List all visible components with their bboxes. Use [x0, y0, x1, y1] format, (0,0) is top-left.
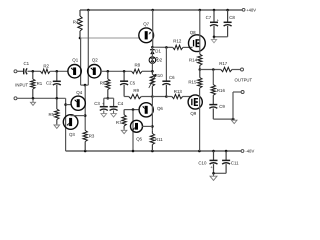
wire gnd run to Q3Q4 column	[65, 98, 67, 151]
svg-text:R13: R13	[174, 89, 183, 94]
wire Q7 collector-emitter	[152, 10, 154, 47]
ground R5	[54, 124, 60, 128]
svg-text:C7: C7	[206, 15, 212, 20]
wire rail to Q2	[87, 10, 89, 85]
svg-text:C9: C9	[219, 104, 225, 109]
node R10 top	[151, 70, 154, 73]
node rail-Q8	[199, 9, 202, 12]
capacitor C6	[162, 47, 175, 96]
wire to C4	[107, 98, 113, 107]
node R10 bottom	[151, 95, 154, 98]
wire Dnode to R12	[152, 46, 172, 48]
wire +48V rail	[80, 9, 243, 11]
ground R7	[121, 129, 127, 134]
node rail-Q7	[151, 9, 154, 12]
svg-text:R3: R3	[89, 133, 95, 138]
wire C5 to R9	[124, 96, 129, 98]
svg-text:R8: R8	[135, 63, 141, 68]
node R6 bottom	[107, 97, 110, 100]
svg-text:+: +	[102, 101, 105, 106]
resistor R6	[100, 71, 110, 98]
node Q5 rail	[132, 150, 135, 153]
node input R1	[32, 70, 35, 73]
capacitor C1	[24, 61, 30, 75]
ground C3	[101, 110, 107, 117]
terminal input gnd	[14, 97, 17, 100]
resistor R7	[116, 110, 126, 129]
svg-text:Q4: Q4	[76, 90, 82, 95]
node rail-Q9	[198, 150, 201, 153]
ground input	[30, 98, 35, 105]
resistor R1	[31, 71, 43, 98]
resistor R16	[211, 70, 225, 105]
node D1 top	[151, 46, 154, 49]
svg-text:-48V: -48V	[245, 149, 254, 154]
transistor Q2	[88, 58, 101, 78]
wire Q7 base run	[80, 37, 139, 39]
svg-text:R4: R4	[73, 20, 79, 25]
wire R8 to Dnode	[142, 70, 152, 72]
terminal output gnd	[241, 91, 244, 94]
svg-text:OUTPUT: OUTPUT	[235, 77, 253, 82]
transistor Q1	[68, 58, 81, 78]
ground output	[231, 118, 237, 123]
svg-text:C8: C8	[229, 15, 235, 20]
wire Q8 drain-source	[199, 10, 201, 54]
wire C8 to C7	[214, 36, 228, 38]
capacitor C11	[222, 151, 239, 173]
capacitor C3	[94, 101, 108, 111]
wire to C3	[104, 98, 107, 107]
svg-text:C11: C11	[231, 160, 239, 165]
node C10 gnd	[212, 172, 215, 175]
resistor R15	[188, 70, 202, 89]
led D2	[149, 57, 163, 64]
wire C1 to node	[28, 70, 41, 72]
node rail-R3	[84, 150, 87, 153]
wire to terminal	[233, 91, 241, 93]
svg-text:+: +	[217, 17, 220, 22]
diode D1	[150, 48, 161, 54]
resistor R13	[172, 89, 183, 99]
transistor Q4	[71, 90, 85, 110]
svg-text:R2: R2	[43, 63, 49, 68]
node input gnd	[32, 97, 35, 100]
terminal output hot	[241, 68, 244, 71]
wire R12 to Q8 gate	[183, 46, 193, 48]
capacitor C8	[224, 10, 236, 37]
ground C7C8	[211, 37, 216, 43]
svg-text:C6: C6	[169, 75, 175, 80]
resistor R9	[129, 88, 142, 99]
svg-text:Q8: Q8	[190, 30, 196, 35]
svg-text:C3: C3	[94, 101, 100, 106]
wire emitter join	[81, 84, 89, 86]
wire R17 to terminal	[232, 69, 240, 71]
transistor Q7	[139, 22, 154, 43]
resistor R17	[219, 61, 232, 72]
transistor Q5	[131, 120, 143, 141]
node R16 top	[212, 68, 215, 71]
wire R2 to Q1 base	[50, 70, 68, 72]
wire Q6 collector-emitter	[151, 97, 153, 131]
svg-text:+48V: +48V	[246, 7, 256, 12]
node Q3 collector	[84, 114, 87, 117]
svg-text:Q5: Q5	[136, 136, 142, 141]
node Q5 emitter	[151, 125, 154, 128]
svg-text:R14: R14	[189, 58, 198, 63]
mosfet Q9	[188, 95, 202, 116]
capacitor C4	[110, 101, 124, 111]
node rail-C7	[213, 9, 216, 12]
terminal -48V	[241, 149, 254, 154]
terminal +48V	[242, 7, 256, 12]
svg-text:R9: R9	[133, 88, 139, 93]
node R4 bottom	[79, 37, 82, 40]
node C2 bottom	[56, 97, 59, 100]
svg-text:C5: C5	[130, 81, 136, 86]
svg-text:D1: D1	[155, 48, 161, 53]
svg-text:C10: C10	[198, 160, 207, 165]
svg-text:Q6: Q6	[157, 106, 163, 111]
wire to R13	[166, 96, 172, 98]
svg-text:Q1: Q1	[72, 58, 78, 63]
terminal input hot	[14, 70, 17, 73]
ground C10C11	[210, 173, 217, 180]
svg-text:R17: R17	[219, 61, 228, 66]
wire Q9 drain-source	[199, 88, 201, 151]
capacitor C2	[46, 71, 61, 98]
node Q4 base	[64, 103, 67, 106]
resistor R14	[189, 54, 202, 69]
node rail-C10	[212, 150, 215, 153]
svg-text:R6: R6	[100, 81, 106, 86]
wire input to C1	[17, 70, 23, 72]
wire node to C6 node	[152, 96, 166, 98]
wire Q2 base east	[101, 70, 132, 72]
svg-text:D2: D2	[157, 57, 163, 62]
wire D column	[151, 47, 153, 71]
svg-text:+: +	[210, 165, 213, 170]
wire -48V rail	[66, 150, 242, 152]
trimmer R10	[149, 71, 163, 96]
resistor R4	[73, 10, 82, 38]
wire input ground run	[17, 97, 65, 99]
resistor R12	[173, 38, 183, 49]
label INPUT	[15, 82, 28, 87]
capacitor C9	[209, 104, 225, 119]
node rail-C11	[225, 150, 228, 153]
svg-text:R7: R7	[116, 120, 122, 125]
resistor R5	[49, 98, 60, 124]
node rail-Q2	[87, 9, 90, 12]
svg-text:R11: R11	[155, 137, 163, 142]
node C5 top	[123, 70, 126, 73]
wire Q6 base	[124, 109, 139, 111]
node rail-R11	[151, 150, 154, 153]
ground C4	[111, 110, 117, 117]
node C2 top	[56, 70, 59, 73]
wire to Q5	[132, 110, 134, 151]
svg-text:Q3: Q3	[69, 132, 75, 137]
resistor R8	[132, 63, 142, 74]
resistor R11	[150, 131, 163, 151]
svg-text:R12: R12	[173, 38, 182, 43]
node R6 top	[107, 70, 110, 73]
mosfet Q8	[189, 30, 206, 52]
node C7 gnd	[213, 36, 216, 39]
svg-text:R1: R1	[37, 81, 43, 86]
capacitor C5	[120, 71, 136, 96]
svg-text:R16: R16	[217, 88, 226, 93]
label OUTPUT	[235, 77, 253, 82]
transistor Q3	[63, 115, 78, 137]
wire output run	[200, 69, 221, 71]
svg-text:R10: R10	[155, 73, 164, 78]
wire Q5 stub	[142, 125, 152, 127]
node C6 bottom	[165, 95, 168, 98]
svg-text:C4: C4	[118, 101, 124, 106]
svg-text:Q9: Q9	[190, 111, 196, 116]
svg-text:C2: C2	[46, 81, 52, 86]
svg-text:INPUT: INPUT	[15, 82, 28, 87]
node emitters	[84, 84, 87, 87]
wire R9 to node	[141, 96, 152, 98]
svg-text:R5: R5	[49, 112, 55, 117]
node rail-C8	[226, 9, 229, 12]
svg-text:Q2: Q2	[92, 58, 98, 63]
capacitor C10	[198, 151, 217, 173]
wire Q3 stub	[71, 115, 86, 117]
wire output gnd up	[232, 92, 234, 119]
node output gnd	[232, 118, 235, 121]
transistor Q6	[139, 103, 163, 117]
wire emitters to Q4	[84, 85, 86, 130]
resistor R3	[83, 131, 95, 152]
svg-text:R15: R15	[188, 80, 197, 85]
node C6 top	[165, 46, 168, 49]
wire C9 to gnd node	[213, 118, 233, 120]
node output left	[199, 68, 202, 71]
wire C11 to C10	[214, 172, 227, 174]
resistor R2	[41, 63, 51, 73]
wire R4 node to Q1	[80, 38, 82, 85]
svg-text:Q7: Q7	[143, 22, 149, 27]
capacitor C7	[206, 10, 220, 37]
wire R13 to Q9 gate	[183, 96, 192, 98]
node Q5 top	[132, 108, 135, 111]
svg-text:C1: C1	[24, 61, 30, 66]
wire to Q4 base	[66, 104, 72, 106]
